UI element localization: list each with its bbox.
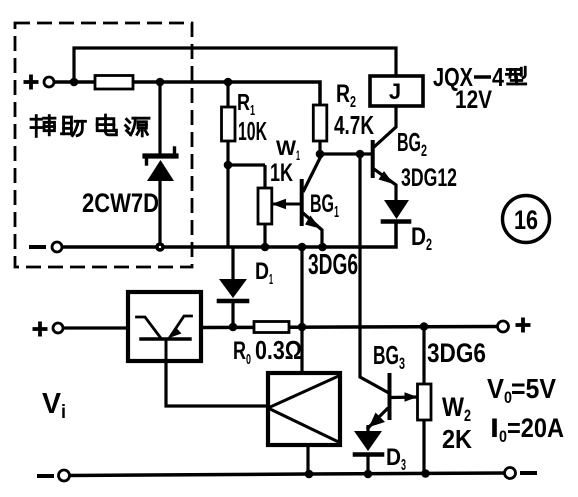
svg-text:1K: 1K	[270, 159, 293, 187]
svg-text:i: i	[61, 402, 66, 423]
svg-text:D: D	[255, 258, 269, 285]
svg-text:2: 2	[464, 406, 471, 425]
svg-text:=5V: =5V	[511, 373, 556, 404]
svg-text:1: 1	[334, 204, 339, 221]
svg-text:J: J	[389, 79, 401, 104]
svg-text:3DG6: 3DG6	[427, 338, 486, 368]
svg-text:2: 2	[426, 235, 432, 254]
svg-text:D: D	[411, 223, 426, 251]
svg-text:1: 1	[296, 147, 300, 163]
svg-text:D: D	[386, 444, 401, 471]
svg-text:16: 16	[514, 205, 538, 235]
svg-text:0: 0	[499, 427, 507, 446]
svg-text:I: I	[490, 413, 499, 443]
svg-text:2: 2	[350, 94, 356, 111]
svg-text:4: 4	[492, 62, 504, 92]
svg-text:0.3Ω: 0.3Ω	[255, 335, 302, 365]
svg-text:3DG12: 3DG12	[401, 164, 457, 192]
svg-text:3DG6: 3DG6	[308, 249, 358, 281]
svg-text:R: R	[233, 337, 246, 365]
svg-text:BG: BG	[397, 127, 421, 157]
svg-text:0: 0	[246, 351, 251, 368]
svg-text:=20A: =20A	[507, 413, 564, 443]
svg-text:BG: BG	[373, 340, 399, 370]
svg-text:V: V	[42, 388, 62, 420]
svg-text:BG: BG	[310, 190, 334, 218]
svg-text:R: R	[237, 89, 250, 115]
svg-text:2K: 2K	[442, 424, 472, 454]
svg-text:12V: 12V	[455, 86, 492, 114]
svg-text:2CW7D: 2CW7D	[82, 188, 159, 218]
svg-text:3: 3	[399, 354, 405, 373]
svg-text:1: 1	[269, 271, 273, 288]
svg-text:3: 3	[401, 457, 406, 474]
svg-text:W: W	[276, 137, 296, 160]
svg-text:W: W	[442, 392, 464, 422]
svg-text:V: V	[487, 373, 504, 404]
svg-text:10K: 10K	[238, 116, 267, 146]
svg-text:2: 2	[421, 141, 427, 160]
svg-text:4.7K: 4.7K	[334, 110, 374, 140]
svg-text:R: R	[336, 80, 350, 108]
